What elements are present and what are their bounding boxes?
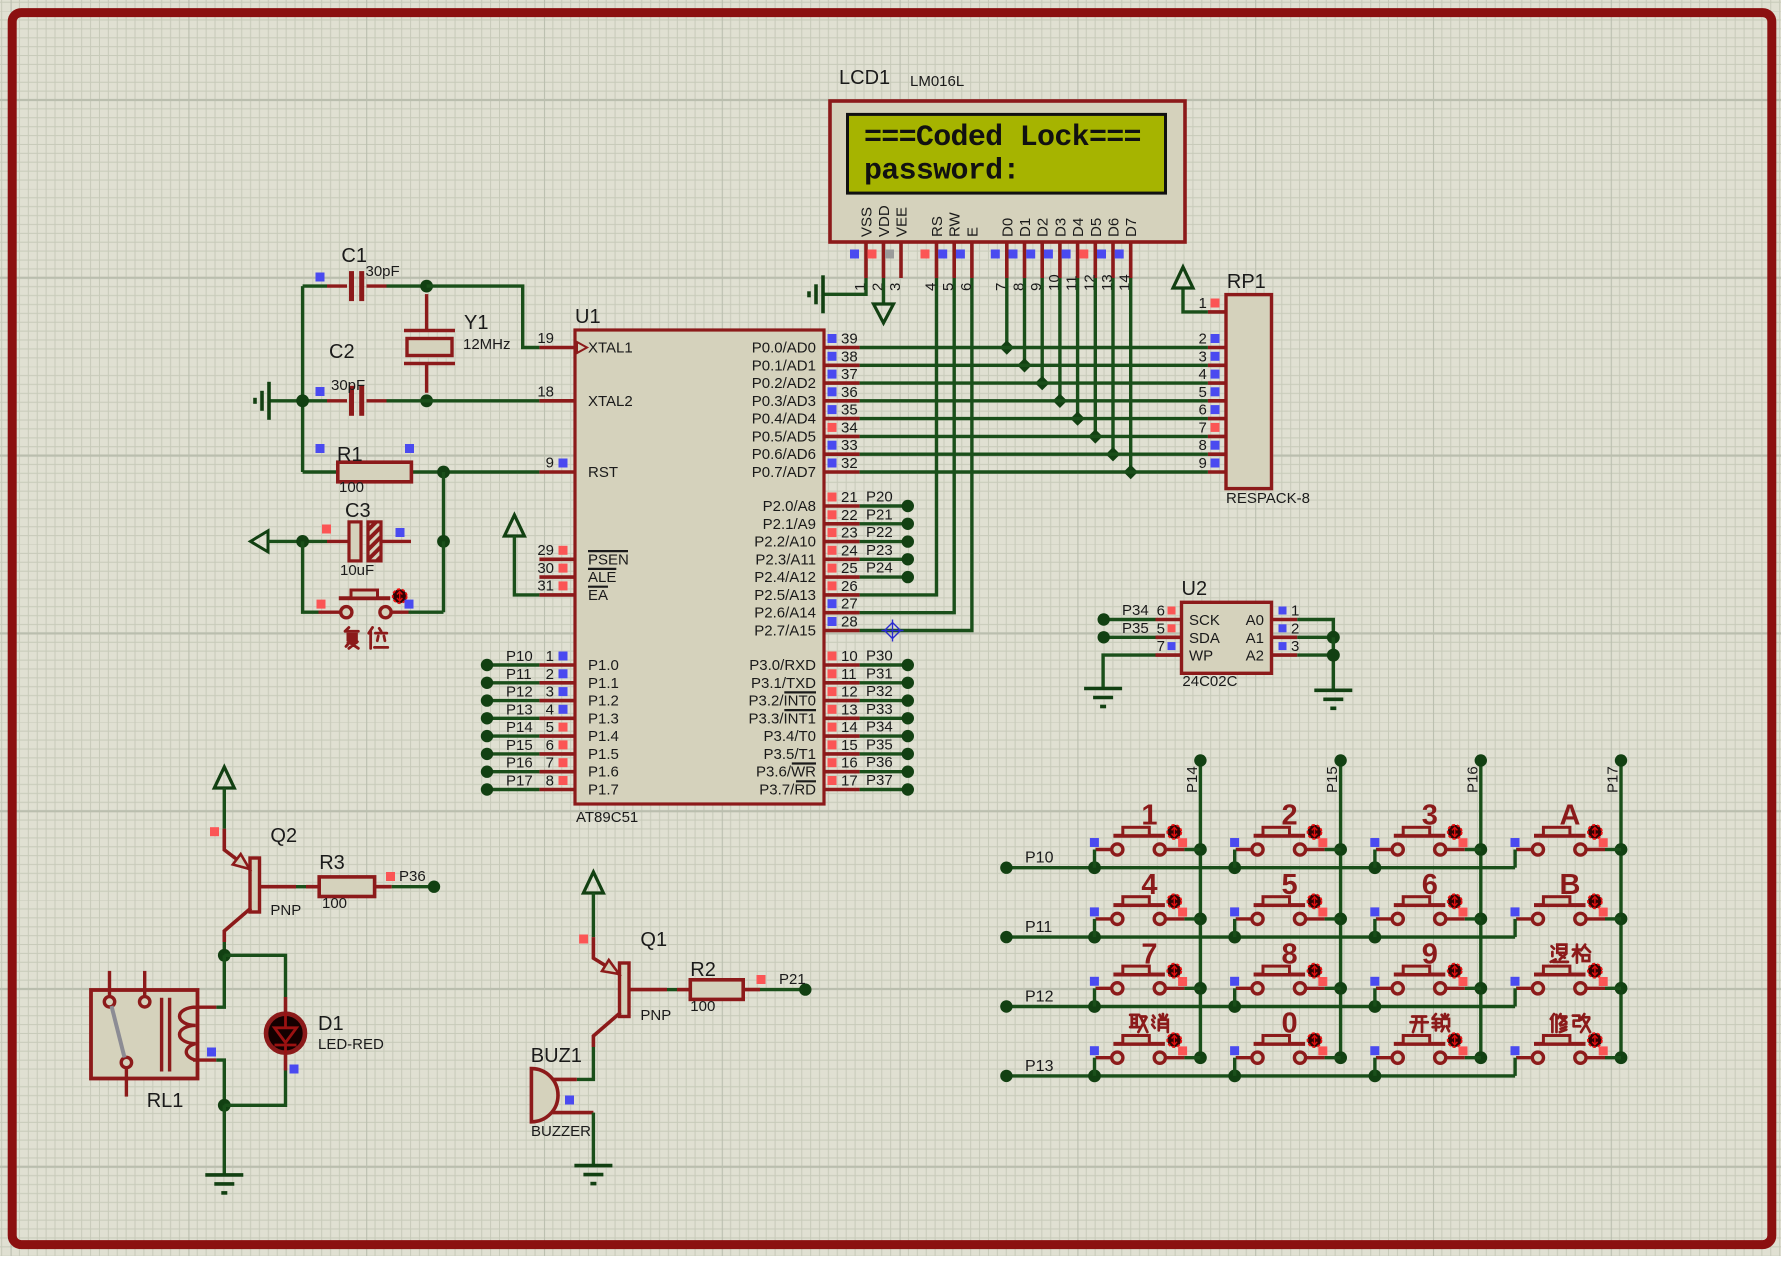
svg-text:34: 34 [841, 419, 858, 436]
svg-text:5: 5 [1157, 620, 1165, 637]
svg-text:3: 3 [546, 684, 554, 701]
U1 pin P2.5/A13 (26) [824, 593, 860, 597]
wire button right leg [1465, 987, 1481, 990]
svg-text:R2: R2 [690, 959, 716, 981]
svg-text:6: 6 [1157, 603, 1165, 620]
terminal (input, pointing left) on C3 row [251, 531, 269, 552]
svg-text:24C02C: 24C02C [1182, 673, 1237, 690]
svg-text:P33: P33 [866, 701, 893, 718]
RP1 pin 6 / wire P0.4 bus row [1208, 417, 1226, 421]
U1 pin P0.1/AD1 (38) [824, 363, 860, 367]
node row P11 x col junction [1088, 931, 1101, 944]
button actuator [1308, 964, 1322, 978]
push button keypad 'CH:开锁' [1376, 1036, 1465, 1064]
svg-text:P31: P31 [866, 665, 893, 682]
node row P10 x col junction [1228, 861, 1241, 874]
svg-text:3: 3 [1291, 638, 1299, 655]
U1 pin P0.6/AD6 (33) [824, 452, 860, 456]
svg-text:6: 6 [1422, 869, 1438, 901]
LCD pin 3 VEE [899, 242, 903, 278]
svg-text:P11: P11 [1025, 919, 1052, 936]
svg-text:7: 7 [1141, 938, 1157, 970]
U1 pin P2.3/A11 (24) [824, 557, 860, 561]
wire D2 column + junction node [1040, 278, 1043, 383]
button actuator [1167, 1033, 1181, 1047]
svg-text:RST: RST [588, 464, 618, 481]
wire button right leg [1465, 848, 1481, 851]
button actuator [1588, 825, 1602, 839]
svg-text:P0.7/AD7: P0.7/AD7 [752, 464, 816, 481]
svg-text:WP: WP [1189, 648, 1213, 665]
node column P17 junction [1615, 843, 1628, 856]
svg-text:3: 3 [1422, 800, 1438, 832]
wire button right leg [1325, 1056, 1341, 1059]
svg-text:25: 25 [841, 560, 858, 577]
button actuator [1448, 894, 1462, 908]
svg-text:P2.3/A11: P2.3/A11 [755, 551, 816, 568]
svg-text:P12: P12 [506, 684, 533, 701]
svg-text:2: 2 [546, 666, 554, 683]
svg-text:U2: U2 [1182, 578, 1208, 600]
RP1 pin 5 / wire P0.3 bus row [1208, 399, 1226, 403]
svg-text:RW: RW [947, 211, 964, 237]
U1 pin P3.5/T1 (15) wire + node P35 [824, 752, 860, 756]
svg-text:D3: D3 [1052, 218, 1069, 237]
node row P12 x col junction [1369, 1000, 1382, 1013]
wire button left leg [1373, 988, 1376, 1006]
node row P10 x col junction [1088, 861, 1101, 874]
svg-text:P0.3/AD3: P0.3/AD3 [752, 393, 816, 410]
U1 pin XTAL1 (19) [539, 346, 575, 350]
wire net P21 + node [860, 522, 904, 525]
push button keypad 'CH:修改' [1516, 1036, 1605, 1064]
wire row net P11 + end node [1011, 935, 1516, 938]
resistor R3 100 [319, 877, 374, 897]
power symbol (Q1 emitter) [583, 872, 603, 893]
wire button left leg [1513, 988, 1516, 1006]
svg-text:P21: P21 [779, 971, 806, 988]
svg-text:VEE: VEE [894, 207, 911, 237]
svg-text:password:: password: [864, 155, 1020, 189]
U1 pin P0.7/AD7 (32) [824, 470, 860, 474]
svg-text:P17: P17 [1605, 766, 1622, 793]
svg-text:2: 2 [1199, 331, 1207, 348]
wire button left leg [1513, 919, 1516, 937]
U2 pin A2 (3) wire + junction node [1272, 653, 1298, 657]
U1 pin P3.4/T0 (14) wire + node P34 [824, 734, 860, 738]
wire XTAL1 net: junction right, down to XTAL1 pin [427, 286, 540, 347]
svg-text:P13: P13 [1025, 1058, 1054, 1075]
svg-text:P0.2/AD2: P0.2/AD2 [752, 375, 816, 392]
svg-text:13: 13 [841, 701, 858, 718]
op-amp U1 body AT89C51 [575, 330, 824, 804]
svg-text:PNP: PNP [270, 902, 301, 919]
wire C1 row [303, 284, 327, 287]
wire Q2 base to R3 [260, 885, 297, 889]
svg-text:P34: P34 [1122, 602, 1149, 619]
wire D4 column + junction node [1076, 278, 1079, 419]
svg-text:BUZZER: BUZZER [531, 1123, 591, 1140]
wire R3 to node P36 [375, 885, 392, 889]
button actuator [1448, 825, 1462, 839]
LCD pin 4 RS [935, 242, 939, 278]
wire button left leg [1233, 1058, 1236, 1076]
resistor R2 100 [690, 980, 743, 1000]
wire power to Q2 emitter [223, 788, 226, 829]
capacitor C2 [327, 386, 387, 416]
wire C3 row left [268, 540, 327, 543]
svg-text:31: 31 [537, 578, 554, 595]
node row P10 x col junction [1369, 861, 1382, 874]
svg-text:P2.6/A14: P2.6/A14 [754, 605, 816, 622]
reset button actuator [393, 589, 407, 603]
svg-text:P23: P23 [866, 542, 893, 559]
svg-text:23: 23 [841, 525, 858, 542]
node: junction relay/LED ground [218, 1099, 231, 1112]
LCD pin 6 E [970, 242, 974, 278]
push button keypad '2' [1236, 827, 1325, 855]
wire power to Q1 emitter [592, 893, 595, 937]
button actuator [1448, 1033, 1462, 1047]
wire power to EA [514, 536, 539, 595]
push button keypad '6' [1376, 897, 1465, 925]
node column P15 junction [1334, 982, 1347, 995]
U1 pin EA (31) [539, 593, 575, 597]
node: junction C2 left [296, 394, 309, 407]
svg-text:35: 35 [841, 402, 858, 419]
node row P13 x col junction [1088, 1070, 1101, 1083]
svg-text:P1.7: P1.7 [588, 782, 619, 799]
svg-text:4: 4 [923, 283, 940, 291]
U1 pin P2.0/A8 (21) [824, 504, 860, 508]
wire P2.7 to LCD E [860, 278, 972, 631]
RP1 pin 4 / wire P0.2 bus row [1208, 381, 1226, 385]
wire D0 column + junction node [1005, 278, 1008, 348]
transistor Q1 PNP [620, 963, 630, 1017]
wire button left leg [1233, 919, 1236, 937]
svg-text:28: 28 [841, 614, 858, 631]
LCD pin 1 VSS [864, 242, 868, 278]
wire button left leg [1373, 1058, 1376, 1076]
svg-text:6: 6 [958, 283, 975, 291]
svg-text:P1.3: P1.3 [588, 710, 619, 727]
svg-text:P35: P35 [866, 736, 893, 753]
node row P12 x col junction [1228, 1000, 1241, 1013]
svg-text:39: 39 [841, 331, 858, 348]
svg-text:P22: P22 [866, 524, 893, 541]
wire relay coil bottom to ground junction [216, 1060, 224, 1105]
svg-text:21: 21 [841, 489, 858, 506]
U1 pin P1.4 (5) wire + node P14 [539, 734, 575, 738]
button actuator [1448, 964, 1462, 978]
svg-text:B: B [1560, 869, 1581, 901]
wire C1 left vertical (C1 row to C2/XTAL2 row to R1 row) [301, 286, 304, 472]
push button keypad 'B' [1516, 897, 1605, 925]
svg-text:P13: P13 [506, 701, 533, 718]
svg-text:5: 5 [1282, 869, 1298, 901]
svg-text:4: 4 [1141, 869, 1157, 901]
RP1 pin 1 + power arrow [1208, 310, 1226, 314]
IC U2 24C02C body [1182, 602, 1272, 673]
push button keypad '1' [1096, 827, 1185, 855]
svg-text:7: 7 [1157, 638, 1165, 655]
wire button left leg [1513, 850, 1516, 868]
node column P16 junction [1474, 843, 1487, 856]
svg-text:19: 19 [537, 330, 554, 347]
svg-text:30: 30 [537, 560, 554, 577]
ground (LCD VSS) [809, 275, 823, 313]
wire button right leg [1605, 1056, 1621, 1059]
svg-text:P17: P17 [506, 773, 533, 790]
svg-text:30pF: 30pF [366, 263, 400, 280]
svg-text:AT89C51: AT89C51 [576, 809, 638, 826]
svg-text:C1: C1 [341, 245, 367, 267]
wire P2.6 to LCD RW [860, 278, 955, 613]
crystal Y1 [404, 294, 455, 393]
svg-text:D4: D4 [1070, 218, 1087, 237]
U1 pin P2.6/A14 (27) [824, 611, 860, 615]
svg-text:8: 8 [1282, 938, 1298, 970]
RP1 pin 2 / wire P0.0 bus row [1208, 346, 1226, 350]
node column P14 junction [1194, 1051, 1207, 1064]
U1 pin P1.7 (8) wire + node P17 [539, 788, 575, 792]
wire reset button right to branch vertical [409, 611, 444, 614]
svg-text:2: 2 [1291, 620, 1299, 637]
label fuwei (reset) chinese [345, 627, 358, 648]
wire button right leg [1605, 917, 1621, 920]
svg-text:1: 1 [1291, 603, 1299, 620]
origin marker on P2.7 wire [882, 620, 904, 642]
svg-text:R3: R3 [319, 852, 345, 874]
svg-text:P12: P12 [1025, 989, 1054, 1006]
svg-text:P2.1/A9: P2.1/A9 [763, 516, 816, 533]
wire D5 column + junction node [1094, 278, 1097, 436]
transistor Q2 PNP [250, 858, 260, 912]
push button keypad '4' [1096, 897, 1185, 925]
svg-text:P14: P14 [506, 719, 533, 736]
svg-text:BUZ1: BUZ1 [531, 1045, 582, 1067]
push button keypad '3' [1376, 827, 1465, 855]
wire button right leg [1465, 917, 1481, 920]
label 退格 [1551, 945, 1568, 962]
svg-text:P0.0/AD0: P0.0/AD0 [752, 340, 816, 357]
wire button left leg [1233, 988, 1236, 1006]
svg-text:3: 3 [1199, 348, 1207, 365]
wire button right leg [1184, 917, 1200, 920]
svg-text:LM016L: LM016L [910, 73, 964, 90]
buzzer BUZ1 [531, 1069, 558, 1122]
U1 pin P1.3 (4) wire + node P13 [539, 716, 575, 720]
svg-text:P21: P21 [866, 506, 893, 523]
button actuator [1588, 894, 1602, 908]
svg-text:10: 10 [841, 648, 858, 665]
svg-text:1: 1 [1141, 800, 1157, 832]
svg-text:P3.5/T1: P3.5/T1 [763, 746, 816, 763]
label 修改 [1551, 1014, 1567, 1032]
wire button left leg [1513, 1058, 1516, 1076]
push button keypad '5' [1236, 897, 1325, 925]
svg-text:17: 17 [841, 773, 858, 790]
U2 pin SCK (6) wire P34 + node [1156, 618, 1182, 622]
U1 pin P1.0 (1) wire + node P10 [539, 663, 575, 667]
U1 pin P2.2/A10 (23) [824, 540, 860, 544]
U1 pin P0.4/AD4 (35) [824, 417, 860, 421]
svg-text:24: 24 [841, 542, 858, 559]
ground (U2 A0-A2) [1314, 690, 1352, 708]
wire net P24 + node [860, 575, 904, 578]
svg-text:LCD1: LCD1 [839, 67, 890, 89]
push button keypad '9' [1376, 966, 1465, 994]
LCD pin 5 RW [952, 242, 956, 278]
U1 pin RST (9) [539, 470, 575, 474]
svg-text:14: 14 [841, 719, 858, 736]
U1 pin PSEN (29) [539, 557, 575, 561]
wire button right leg [1605, 848, 1621, 851]
node: junction R1 right / RST / reset branch [437, 466, 450, 479]
wire button right leg [1184, 1056, 1200, 1059]
svg-text:P3.2/INT0: P3.2/INT0 [748, 693, 816, 710]
wire row net P12 + end node [1011, 1005, 1516, 1008]
button actuator [1308, 894, 1322, 908]
wire D3 column + junction node [1058, 278, 1061, 401]
svg-text:100: 100 [339, 479, 364, 496]
svg-text:Q1: Q1 [640, 929, 667, 951]
svg-text:P2.4/A12: P2.4/A12 [754, 569, 816, 586]
svg-text:P15: P15 [1324, 766, 1341, 793]
svg-text:A1: A1 [1246, 630, 1264, 647]
svg-text:P20: P20 [866, 489, 893, 506]
svg-text:P30: P30 [866, 648, 893, 665]
svg-text:29: 29 [537, 542, 554, 559]
wire R2 to node P21 [743, 988, 760, 992]
push button keypad 'A' [1516, 827, 1605, 855]
U1 pin P0.3/AD3 (36) [824, 399, 860, 403]
svg-text:26: 26 [841, 578, 858, 595]
button actuator [1588, 964, 1602, 978]
U1 pin P1.6 (7) wire + node P16 [539, 770, 575, 774]
wire column net P14 + end node [1199, 764, 1202, 1058]
svg-text:P3.0/RXD: P3.0/RXD [749, 657, 816, 674]
svg-text:7: 7 [546, 755, 554, 772]
LCD LCD1 LM016L body [830, 101, 1185, 242]
U1 pin P0.2/AD2 (37) [824, 381, 860, 385]
RP1 pin 9 / wire P0.7 bus row [1208, 470, 1226, 474]
LCD screen [848, 114, 1166, 193]
U1 pin P0.0/AD0 (39) [824, 346, 860, 350]
svg-text:A0: A0 [1246, 612, 1264, 629]
U1 pin P3.3/INT1 (13) wire + node P33 [824, 716, 860, 720]
ground (relay/LED) [205, 1175, 243, 1193]
svg-text:D6: D6 [1106, 218, 1123, 237]
svg-text:P1.6: P1.6 [588, 764, 619, 781]
svg-text:===Coded Lock===: ===Coded Lock=== [864, 121, 1141, 155]
wire junction to ground [223, 1105, 226, 1175]
svg-text:30pF: 30pF [331, 377, 365, 394]
power symbol (Q2 emitter) [214, 767, 234, 788]
wire Q1 collector to buzzer [577, 1047, 594, 1079]
svg-text:RP1: RP1 [1227, 271, 1266, 293]
node column P16 junction [1474, 1051, 1487, 1064]
svg-text:15: 15 [841, 737, 858, 754]
svg-text:SDA: SDA [1189, 630, 1220, 647]
resistor pack RP1 body [1226, 295, 1272, 489]
svg-text:A: A [1560, 800, 1581, 832]
svg-text:P35: P35 [1122, 620, 1149, 637]
wire D7 column + junction node [1129, 278, 1132, 472]
svg-text:ALE: ALE [588, 569, 616, 586]
push button keypad '0' [1236, 1036, 1325, 1064]
ground (U2 WP) [1084, 689, 1122, 707]
wire row net P13 + end node [1011, 1074, 1516, 1077]
svg-text:P34: P34 [866, 719, 893, 736]
svg-text:P3.7/RD: P3.7/RD [759, 782, 816, 799]
wire junction down to relay coil [216, 955, 224, 1007]
svg-text:9: 9 [1422, 938, 1438, 970]
svg-text:33: 33 [841, 437, 858, 454]
U2 pin A1 (2) wire + junction node [1272, 635, 1298, 639]
ground (buzzer) [574, 1166, 612, 1184]
svg-text:P1.4: P1.4 [588, 728, 619, 745]
node: junction C1/Y1/XTAL1 [420, 280, 433, 293]
wire button left leg [1373, 850, 1376, 868]
LCD pin 8 D1 [1023, 242, 1027, 278]
label 取消 [1130, 1015, 1147, 1032]
svg-text:P15: P15 [506, 737, 533, 754]
push button keypad '7' [1096, 966, 1185, 994]
push button keypad 'CH:取消' [1096, 1036, 1185, 1064]
svg-text:37: 37 [841, 366, 858, 383]
reset push button [319, 590, 409, 618]
svg-text:16: 16 [841, 755, 858, 772]
svg-text:D5: D5 [1088, 218, 1105, 237]
svg-text:P3.4/T0: P3.4/T0 [763, 728, 816, 745]
svg-text:P1.2: P1.2 [588, 693, 619, 710]
capacitor C1 [327, 271, 387, 301]
svg-text:Y1: Y1 [464, 312, 488, 334]
relay switch blade [112, 1006, 125, 1058]
LCD pin 11 D4 [1076, 242, 1080, 278]
relay contact pins [104, 971, 150, 1097]
svg-text:XTAL2: XTAL2 [588, 393, 633, 410]
button actuator [1588, 1033, 1602, 1047]
svg-text:36: 36 [841, 384, 858, 401]
svg-text:11: 11 [841, 666, 857, 683]
wire net P23 + node [860, 558, 904, 561]
wire D1 column + junction node [1023, 278, 1026, 365]
LCD pin 7 D0 [1005, 242, 1009, 278]
wire LCD VDD power stub [882, 278, 885, 304]
node row P13 x col junction [1369, 1070, 1382, 1083]
node column P15 junction [1334, 1051, 1347, 1064]
button actuator [1167, 964, 1181, 978]
svg-text:P3.1/TXD: P3.1/TXD [751, 675, 816, 692]
wire button right leg [1465, 1056, 1481, 1059]
wire button left leg [1233, 850, 1236, 868]
wire LCD VSS to ground [823, 278, 866, 294]
svg-text:9: 9 [546, 455, 554, 472]
ground (XTAL2 row, rotated left) [255, 382, 269, 420]
svg-text:38: 38 [841, 348, 858, 365]
node: junction C3 right [437, 535, 450, 548]
node column P15 junction [1334, 913, 1347, 926]
label 开锁 [1411, 1016, 1428, 1032]
power symbol down at VDD [874, 304, 894, 323]
svg-text:P14: P14 [1184, 766, 1201, 793]
U1 pin P3.6/WR (16) wire + node P36 [824, 770, 860, 774]
U1 pin P1.2 (3) wire + node P12 [539, 699, 575, 703]
LCD pin 13 D6 [1111, 242, 1115, 278]
wire column net P15 + end node [1339, 764, 1342, 1058]
